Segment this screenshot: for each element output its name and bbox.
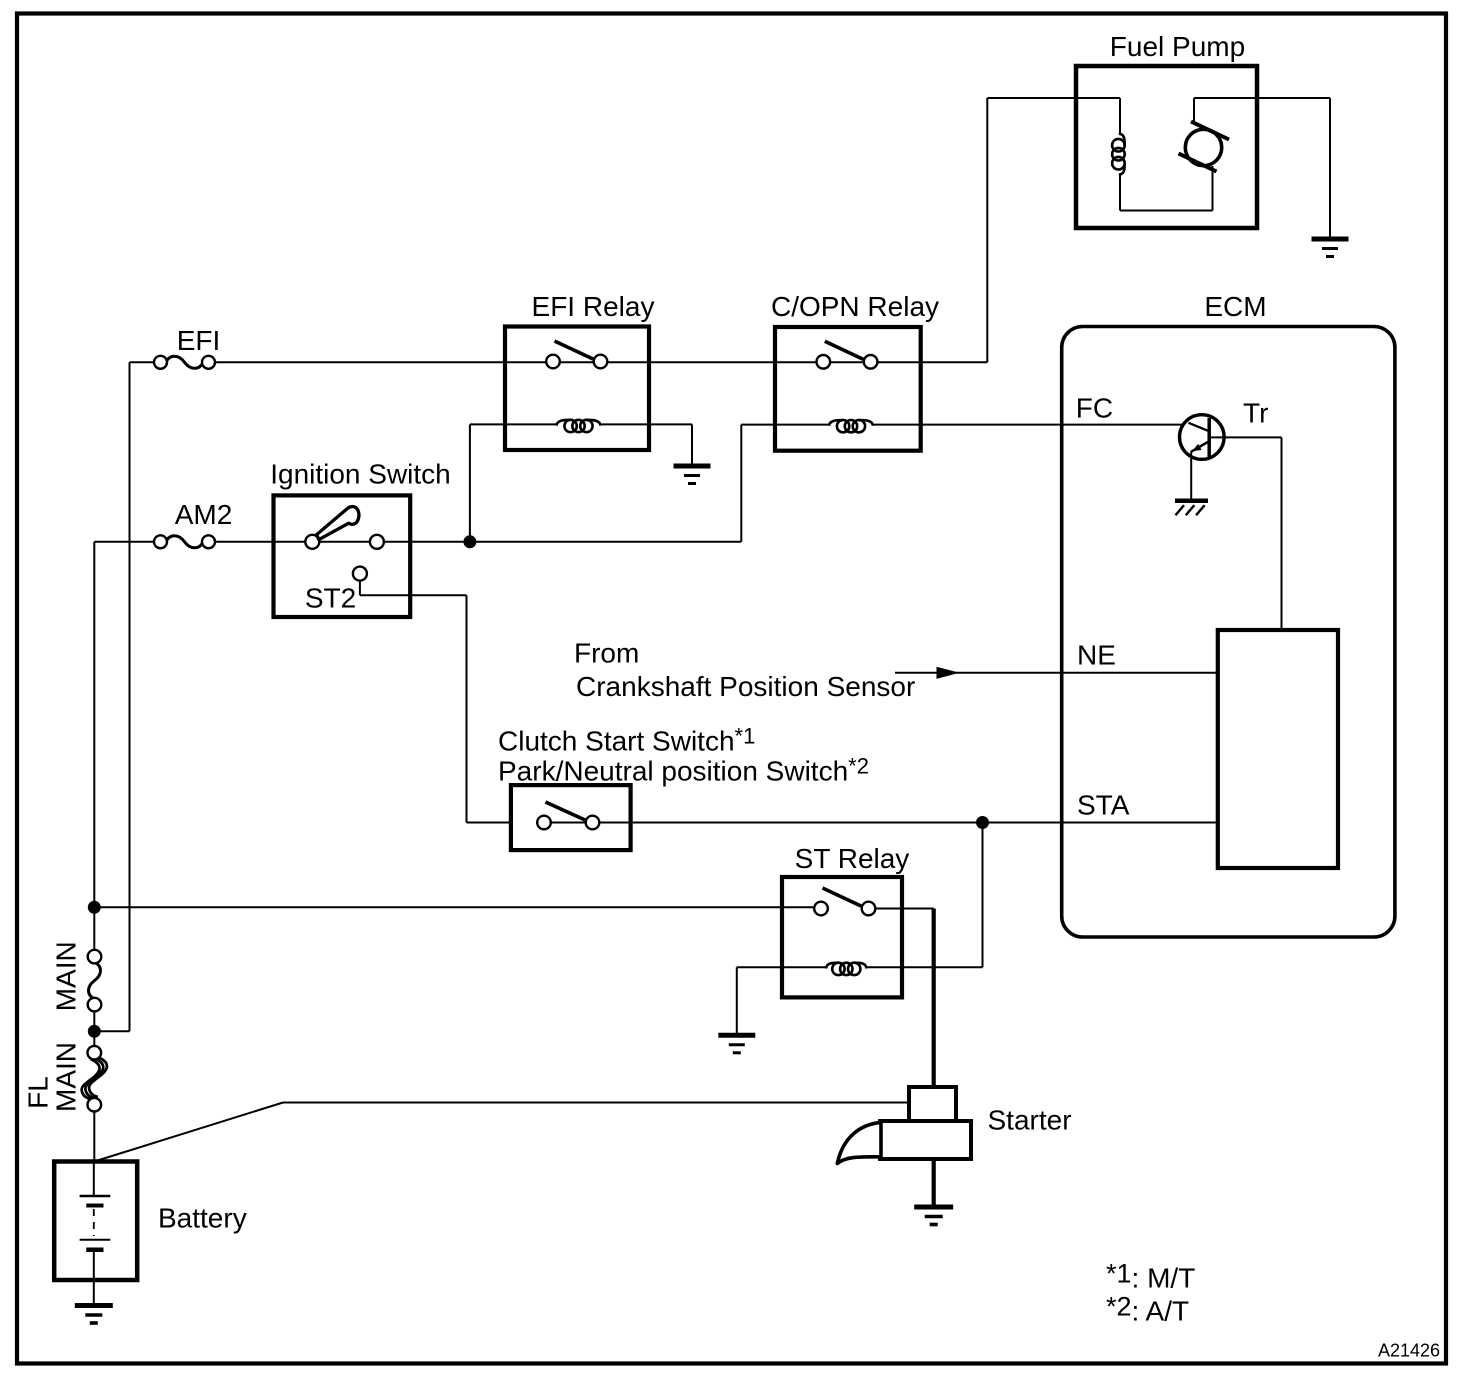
svg-text:ECM: ECM: [1204, 291, 1266, 322]
svg-text:A21426: A21426: [1378, 1341, 1440, 1361]
svg-text:Fuel Pump: Fuel Pump: [1110, 31, 1245, 62]
svg-text:FL: FL: [23, 1076, 54, 1109]
svg-text:Crankshaft Position Sensor: Crankshaft Position Sensor: [576, 671, 915, 702]
svg-text:*1: M/T: *1: M/T: [1106, 1259, 1195, 1294]
svg-text:EFI Relay: EFI Relay: [532, 291, 655, 322]
svg-text:MAIN: MAIN: [51, 1042, 82, 1112]
svg-text:Ignition Switch: Ignition Switch: [270, 459, 451, 490]
svg-text:Tr: Tr: [1243, 398, 1268, 429]
svg-text:NE: NE: [1077, 640, 1116, 671]
svg-text:STA: STA: [1077, 790, 1130, 821]
svg-text:MAIN: MAIN: [51, 941, 82, 1011]
svg-text:Starter: Starter: [988, 1105, 1072, 1136]
svg-text:Battery: Battery: [158, 1203, 247, 1234]
svg-text:EFI: EFI: [177, 325, 221, 356]
svg-text:ST Relay: ST Relay: [795, 843, 910, 874]
svg-text:ST2: ST2: [305, 583, 356, 614]
svg-text:Clutch Start Switch*1: Clutch Start Switch*1: [498, 724, 755, 757]
svg-text:C/OPN Relay: C/OPN Relay: [771, 291, 939, 322]
svg-text:From: From: [574, 638, 639, 669]
svg-text:AM2: AM2: [175, 499, 233, 530]
svg-text:*2: A/T: *2: A/T: [1106, 1292, 1189, 1327]
svg-text:Park/Neutral position Switch*2: Park/Neutral position Switch*2: [498, 754, 869, 787]
svg-text:FC: FC: [1076, 393, 1113, 424]
